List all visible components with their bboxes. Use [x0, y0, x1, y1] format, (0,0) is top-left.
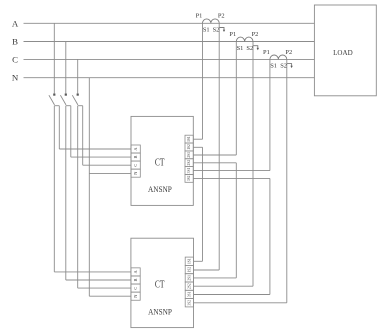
- svg-text:LOAD: LOAD: [333, 48, 353, 57]
- polarity arrow of TA2: [253, 46, 259, 51]
- terminal pin C of meter lower (left): [131, 284, 140, 292]
- svg-text:C: C: [133, 164, 138, 167]
- svg-text:P1: P1: [263, 49, 270, 56]
- svg-text:1S1: 1S1: [187, 136, 191, 142]
- svg-text:S2: S2: [246, 45, 253, 52]
- svg-text:ANSNP: ANSNP: [148, 185, 172, 194]
- meter upper label CT: [155, 157, 165, 168]
- svg-text:C: C: [133, 287, 138, 290]
- svg-text:P2: P2: [252, 31, 259, 38]
- current transformer TA1 winding arcs: [203, 19, 220, 23]
- wire phase C tap: [77, 59, 79, 93]
- wire B to lower meter: [65, 106, 67, 280]
- wire phase C bus: [24, 58, 315, 60]
- wire upper pin 1S1 row: [193, 138, 202, 140]
- svg-text:2S1: 2S1: [187, 275, 191, 281]
- switch QS-A contact dot: [53, 94, 55, 96]
- svg-text:B: B: [133, 278, 138, 281]
- svg-text:P2: P2: [285, 49, 292, 56]
- meter lower label CT: [155, 280, 165, 291]
- terminal pin 3S2 of meter lower (right): [185, 299, 193, 307]
- svg-text:S1: S1: [237, 45, 244, 52]
- polarity arrow of TA3: [287, 64, 293, 69]
- node N (neutral label): [12, 73, 19, 83]
- terminal pin 2S2 of meter upper (right): [185, 159, 193, 167]
- switch QS-B blade: [60, 95, 66, 105]
- wire upper pin 2S2 row: [193, 162, 236, 164]
- svg-text:N: N: [12, 73, 19, 83]
- terminal pin 1S1 of meter lower (right): [185, 257, 193, 265]
- wire C to lower meter: [77, 106, 79, 288]
- terminal pin B of meter lower (left): [131, 276, 140, 284]
- svg-text:2S2: 2S2: [187, 160, 191, 166]
- terminal pin 3S2 of meter upper (right): [185, 174, 193, 182]
- polarity arrow of TA1: [219, 28, 225, 33]
- svg-text:N: N: [133, 171, 138, 175]
- wire lower pin 3S2 row: [194, 302, 287, 304]
- terminal pin 1S2 of meter upper (right): [185, 143, 193, 151]
- wire upper pin 1S2 row: [193, 146, 202, 148]
- wire upper pin 2S1 row: [193, 154, 236, 156]
- terminal pin B of meter upper (left): [131, 153, 140, 161]
- wire A into lower pin A: [54, 271, 131, 273]
- wire C into upper pin C: [83, 164, 131, 166]
- wire upper pin 3S2 row: [193, 177, 270, 179]
- switch QS-C blade: [72, 95, 78, 105]
- svg-text:N: N: [133, 294, 138, 298]
- terminal pin A of meter upper (left): [131, 145, 140, 153]
- terminal pin 2S1 of meter upper (right): [185, 151, 193, 159]
- wire TA2 S2 lead: [252, 42, 254, 287]
- wire TA1 S2 lead: [218, 23, 220, 270]
- switch QS-B output bar: [66, 105, 71, 107]
- wire N into lower pin N: [89, 295, 131, 297]
- wire C into lower pin C: [78, 287, 131, 289]
- terminal pin N of meter lower (left): [131, 292, 140, 300]
- wire A to upper meter: [58, 106, 60, 149]
- meter lower label ANSNP: [148, 307, 172, 316]
- terminal pin A of meter lower (left): [131, 268, 140, 276]
- terminal pin 2S2 of meter lower (right): [185, 282, 193, 290]
- wire TA3 S1 lead: [269, 59, 271, 170]
- node A (phase A label): [12, 18, 19, 28]
- label P1 of TA1: [196, 13, 203, 20]
- wire series link 1 (upper 1S2 to lower 1S1): [202, 147, 204, 261]
- wire neutral tap: [88, 78, 90, 297]
- terminal pin 3S1 of meter upper (right): [185, 167, 193, 175]
- svg-text:ANSNP: ANSNP: [148, 307, 172, 316]
- label P2 of TA1: [218, 13, 225, 20]
- node C (phase C label): [12, 54, 18, 64]
- svg-text:B: B: [133, 156, 138, 159]
- wire series link 3 (upper 3S2 to lower 3S1): [269, 178, 271, 294]
- label P1 of TA3: [263, 49, 270, 56]
- wire phase A tap: [53, 23, 55, 93]
- svg-text:CT: CT: [155, 157, 165, 168]
- switch QS-A output bar: [54, 105, 59, 107]
- wire lower pin 2S1 row: [194, 277, 237, 279]
- meter lower box outline: [131, 238, 194, 327]
- terminal pin 1S1 of meter upper (right): [185, 135, 193, 143]
- terminal pin 2S1 of meter lower (right): [185, 274, 193, 282]
- wire phase B bus: [24, 41, 315, 43]
- label S1 of TA1: [203, 27, 210, 34]
- wire B into upper pin B: [71, 156, 131, 158]
- wire A into upper pin A: [59, 148, 131, 150]
- svg-text:C: C: [12, 54, 18, 64]
- wire A to lower meter: [53, 106, 55, 272]
- label S1 of TA2: [237, 45, 244, 52]
- svg-text:A: A: [133, 147, 138, 151]
- svg-text:3S1: 3S1: [187, 168, 191, 174]
- wire TA1 S1 lead: [202, 23, 204, 139]
- label S2 of TA2: [246, 45, 253, 52]
- wire TA2 S1 lead: [235, 42, 237, 156]
- svg-text:2S1: 2S1: [187, 152, 191, 158]
- node B (phase B label): [12, 37, 18, 47]
- wire lower pin 1S1 row: [194, 260, 203, 262]
- svg-text:P1: P1: [196, 13, 203, 20]
- wire N into upper pin N: [89, 172, 131, 174]
- load box LOAD: [314, 5, 376, 96]
- switch QS-A blade: [49, 95, 55, 105]
- wire series link 2 (upper 2S2 to lower 2S1): [235, 163, 237, 278]
- svg-text:CT: CT: [155, 280, 165, 291]
- switch QS-C output bar: [78, 105, 83, 107]
- label S2 of TA1: [213, 27, 220, 34]
- meter upper label ANSNP: [148, 185, 172, 194]
- svg-text:3S1: 3S1: [187, 291, 191, 297]
- switch QS-C contact dot: [77, 94, 79, 96]
- svg-text:P2: P2: [218, 13, 225, 20]
- wire phase B tap: [65, 42, 67, 94]
- wire B to upper meter: [70, 106, 72, 157]
- label P2 of TA2: [252, 31, 259, 38]
- label P1 of TA2: [229, 31, 236, 38]
- wire TA3 S2 lead: [286, 59, 288, 302]
- svg-text:1S1: 1S1: [187, 258, 191, 264]
- svg-text:A: A: [12, 18, 19, 28]
- terminal pin C of meter upper (left): [131, 161, 140, 169]
- wire lower pin 3S1 row: [194, 294, 270, 296]
- svg-text:S2: S2: [280, 63, 287, 70]
- label S2 of TA3: [280, 63, 287, 70]
- terminal pin 3S1 of meter lower (right): [185, 290, 193, 298]
- svg-text:3S2: 3S2: [187, 300, 191, 306]
- meter upper box outline: [131, 116, 193, 205]
- switch QS-B contact dot: [65, 94, 67, 96]
- wire phase A bus: [24, 22, 315, 24]
- svg-text:S1: S1: [203, 27, 210, 34]
- svg-text:S2: S2: [213, 27, 220, 34]
- svg-text:S1: S1: [270, 63, 277, 70]
- terminal pin N of meter upper (left): [131, 169, 140, 177]
- svg-text:3S2: 3S2: [187, 175, 191, 181]
- wire lower pin 2S2 row: [194, 285, 254, 287]
- wire C to upper meter: [82, 106, 84, 166]
- wire lower pin 1S2 row: [194, 269, 220, 271]
- svg-text:1S2: 1S2: [187, 144, 191, 150]
- wire B into lower pin B: [66, 279, 131, 281]
- svg-text:A: A: [133, 269, 138, 273]
- label S1 of TA3: [270, 63, 277, 70]
- svg-text:2S2: 2S2: [187, 283, 191, 289]
- svg-text:B: B: [12, 37, 18, 47]
- current transformer TA3 winding arcs: [270, 55, 287, 59]
- wire upper pin 3S1 row: [193, 170, 270, 172]
- current transformer TA2 winding arcs: [236, 37, 253, 41]
- wire neutral N bus: [24, 77, 315, 79]
- svg-text:1S2: 1S2: [187, 267, 191, 273]
- label P2 of TA3: [285, 49, 292, 56]
- terminal pin 1S2 of meter lower (right): [185, 265, 193, 273]
- svg-text:P1: P1: [229, 31, 236, 38]
